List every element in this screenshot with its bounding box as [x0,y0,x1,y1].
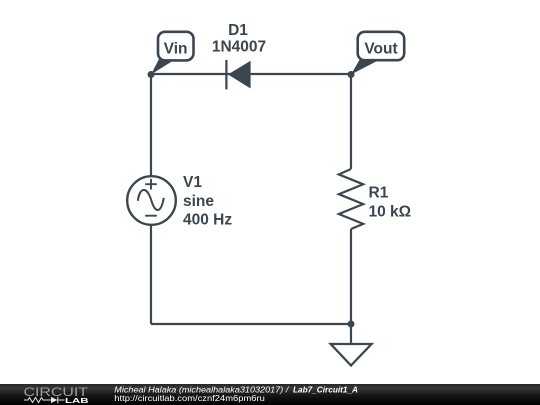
svg-text:Vin: Vin [164,41,188,58]
CircuitLab logo wordmark [24,385,90,405]
svg-text:sine: sine [183,193,214,210]
wire left vertical upper [150,74,152,177]
svg-text:1N4007: 1N4007 [212,39,266,56]
svg-text:Lab7_Circuit1_A: Lab7_Circuit1_A [293,385,358,395]
svg-text:10 kΩ: 10 kΩ [369,203,412,220]
node Vin flag [151,32,194,75]
wire ground stub [350,324,352,344]
wire bottom horizontal [151,323,351,325]
label R1 value [369,185,412,221]
wire right vertical lower [350,229,352,324]
footer credit text [114,385,358,404]
svg-text:Vout: Vout [364,41,397,58]
footer bar [0,384,540,405]
voltage source V1 [127,176,176,225]
resistor R1 [339,169,363,229]
svg-text:D1: D1 [228,22,248,39]
label V1 value [183,174,232,229]
node Vout flag [351,32,404,75]
node ground junction dot [348,321,355,328]
svg-text:R1: R1 [369,185,389,202]
svg-text:http://circuitlab.com/cznf24m6: http://circuitlab.com/cznf24m6pm6ru [114,393,265,403]
wire top horizontal Vin to Vout [151,73,351,75]
wire left vertical lower [150,225,152,325]
node Vin junction dot [148,71,155,78]
ground [331,344,372,366]
diode D1 [226,60,250,90]
svg-text:V1: V1 [183,174,202,191]
svg-text:LAB: LAB [65,396,89,405]
wire right vertical upper [350,74,352,169]
node Vout junction dot [348,71,355,78]
label D1 value [212,22,266,56]
svg-text:400 Hz: 400 Hz [183,212,232,229]
